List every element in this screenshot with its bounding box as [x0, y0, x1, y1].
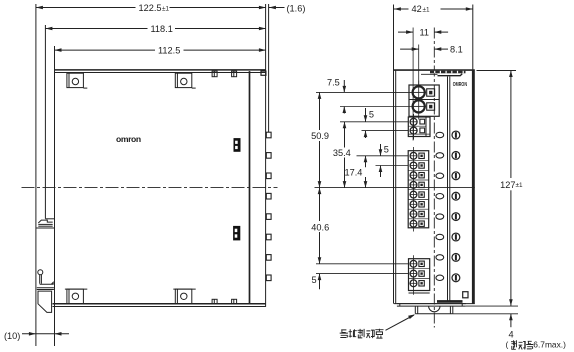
dimension 17.4	[365, 156, 367, 168]
svg-text:±1: ±1	[162, 5, 170, 12]
left view terminal bump 2	[266, 153, 271, 159]
svg-text:(: (	[506, 339, 509, 349]
left view black connector 2	[233, 226, 240, 241]
dimension 8.1	[400, 48, 419, 50]
DIN rail foot	[38, 291, 52, 312]
front oval hole 7	[436, 255, 444, 260]
CN3 terminal row 2	[410, 162, 417, 169]
svg-text:7.5: 7.5	[327, 77, 340, 87]
DIN rail spring knob	[38, 270, 43, 275]
front oval hole 1	[436, 132, 444, 137]
front top toothed strip	[430, 71, 466, 74]
front oval hole 5	[436, 214, 444, 219]
extension line CN4 row2	[316, 273, 409, 275]
extension line CN2 row2	[362, 130, 409, 132]
left view bottom plate	[53, 303, 266, 305]
label daogui zhidongqi (rail brake)	[340, 330, 348, 338]
left view front panel second line	[268, 4, 270, 132]
front panel screw 7	[452, 254, 460, 262]
DIN slider arc notch	[429, 306, 440, 312]
front view bottom edge	[394, 303, 475, 305]
dimension (1.6) arrow	[269, 7, 285, 9]
DIN rail upper hook	[45, 218, 54, 220]
horizontal centerline left view	[22, 187, 278, 189]
left view terminal bump 7	[266, 255, 271, 261]
front oval hole 8	[436, 275, 444, 280]
svg-text:127: 127	[500, 180, 515, 190]
front bottom plate	[397, 303, 466, 305]
connector CN4 outline	[409, 259, 430, 291]
front bottom small square	[463, 292, 468, 298]
front oval hole 2	[436, 153, 444, 158]
extension line CN1 row1	[316, 91, 412, 93]
svg-text:112.5: 112.5	[158, 45, 180, 55]
left view top small notch 2	[232, 71, 237, 77]
extension line bottom plate right	[466, 305, 518, 307]
dimension 35.4	[344, 122, 346, 148]
svg-text:8.1: 8.1	[450, 45, 463, 55]
CN3 terminal row 5	[410, 191, 417, 198]
front panel screw 4	[452, 192, 460, 200]
left view top plate	[55, 69, 266, 71]
left view bottom small notch 2	[232, 299, 237, 303]
svg-text:50.9: 50.9	[311, 131, 329, 141]
front oval hole 6	[436, 234, 444, 239]
left view front panel outer line	[265, 4, 267, 307]
svg-text:5: 5	[312, 275, 317, 285]
DIN rail spring ledge	[40, 282, 54, 284]
dimension 118.1 line	[45, 28, 147, 30]
dimension 127 top extension	[477, 70, 517, 72]
svg-text:±1: ±1	[516, 182, 524, 189]
front panel screw 3	[452, 172, 460, 180]
left view bottom mounting tab 2	[173, 288, 195, 290]
svg-text:40.6: 40.6	[311, 222, 329, 232]
svg-text:(10): (10)	[4, 331, 20, 341]
dimension 50.9	[319, 92, 321, 130]
dimension (10) line	[22, 333, 69, 335]
left view terminal bump 6	[266, 234, 271, 240]
left view bottom mounting tab 1	[65, 288, 87, 290]
front oval hole 4	[436, 194, 444, 199]
CN4 terminal row 2	[410, 270, 417, 277]
svg-text:42: 42	[412, 4, 422, 14]
left view extension line mid (118.1 ref)	[44, 25, 46, 219]
front panel screw 5	[452, 213, 460, 221]
CN1 screw terminal row 1	[413, 86, 425, 98]
left view top small notch 1	[212, 71, 217, 77]
svg-text:4: 4	[509, 330, 514, 340]
extension line CN2 row1	[340, 121, 408, 123]
svg-text:11: 11	[420, 28, 430, 38]
dimension 5 (CN4)	[319, 274, 321, 290]
CN4 terminal row 1	[410, 260, 417, 267]
front view right edge band	[472, 71, 475, 304]
connector CN1 outline	[409, 85, 439, 116]
CN1 screw terminal row 2	[413, 100, 425, 112]
CN3 terminal row 1	[410, 152, 417, 159]
front view vertical centerline	[433, 28, 435, 328]
CN2 terminal row 1	[410, 118, 417, 125]
left view body right edge	[249, 71, 251, 304]
left view top mounting tab 2	[175, 73, 192, 87]
dimension 40.6	[319, 188, 321, 221]
svg-text:±1: ±1	[423, 6, 431, 13]
CN3 terminal row 4	[410, 182, 417, 189]
dimension 4	[510, 314, 512, 327]
svg-text:17.4: 17.4	[345, 168, 363, 178]
extension line slider bottom	[453, 313, 518, 315]
front view left edge double line	[393, 5, 395, 304]
extension line CN3 row1	[357, 155, 409, 157]
extension line CN1 row2	[340, 106, 412, 108]
CN3 terminal row 3	[410, 172, 417, 179]
CN3 terminal row 7	[410, 211, 417, 218]
CN3 terminal row 8	[410, 220, 417, 227]
left view terminal bump 1	[266, 132, 271, 138]
left view body left edge (112.5 ref)	[54, 46, 56, 346]
dimension 127 line	[510, 71, 512, 179]
front panel screw 1	[452, 131, 460, 139]
front panel screw 2	[452, 152, 460, 160]
front right panel left double line	[447, 77, 449, 301]
left view bottom small notch 1	[212, 299, 217, 303]
front view 42 dim right extension	[472, 5, 474, 71]
CN2 terminal row 2	[410, 127, 417, 134]
svg-text:OMRON: OMRON	[453, 82, 467, 88]
connector CN3 outline	[408, 151, 429, 228]
extension line conn1 column	[418, 45, 420, 85]
front view top edge	[394, 69, 475, 71]
DIN slider	[414, 306, 416, 314]
svg-text:(1.6): (1.6)	[287, 3, 306, 13]
dimension 112.5 line	[55, 49, 156, 51]
connector CN2 outline	[408, 117, 430, 137]
extension line CN3 row2	[376, 165, 409, 167]
left view top mounting tab 1	[67, 73, 84, 87]
svg-text:omron: omron	[116, 134, 141, 144]
front top bracket line	[421, 73, 438, 75]
label (sliding 6.7max.) CJK part	[511, 340, 516, 349]
DIN rail spring stem	[39, 275, 41, 284]
front panel screw 8	[452, 274, 460, 282]
leader arrow to DIN slider	[386, 315, 415, 330]
reference centerline front	[315, 187, 475, 189]
left view terminal bump 4	[266, 193, 271, 199]
extension line screw column	[412, 28, 414, 141]
left view terminal bump 3	[266, 173, 271, 179]
front bottom dark bar	[437, 300, 463, 303]
left view top corner box	[261, 71, 266, 75]
dimension 122.5 line	[36, 7, 136, 9]
left view extension line left (122.5 ref / DIN bracket edge)	[35, 4, 37, 346]
left view terminal bump 8	[266, 275, 271, 281]
svg-text:122.5: 122.5	[139, 3, 162, 13]
svg-text:5: 5	[384, 145, 389, 155]
left view terminal bump 5	[266, 214, 271, 220]
svg-text:118.1: 118.1	[151, 24, 173, 34]
extension line CN4 row1	[316, 263, 409, 265]
front panel screw 6	[452, 233, 460, 241]
svg-text:6.7max.): 6.7max.)	[533, 339, 566, 349]
left view black connector 1	[234, 138, 241, 152]
dimension 11	[398, 31, 413, 33]
front oval hole 3	[436, 173, 444, 178]
svg-text:35.4: 35.4	[333, 148, 351, 158]
CN4 terminal row 3	[410, 280, 417, 287]
dimension 42 line	[394, 8, 409, 10]
CN3 terminal row 6	[410, 201, 417, 208]
svg-text:5: 5	[369, 109, 374, 119]
